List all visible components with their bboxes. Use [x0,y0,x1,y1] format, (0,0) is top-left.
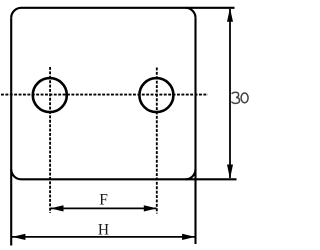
hole right [139,78,173,112]
arrowhead F right [144,205,157,211]
vertical centerline right hole [156,68,158,214]
label 30 digit 0 [241,93,248,103]
plate corner bottom-left [11,169,21,179]
plate corner top-right [186,8,196,18]
arrowhead F left [50,205,63,211]
arrowhead H left [12,234,25,240]
plate corner bottom-right [186,169,196,179]
label 30 digit 3 [232,92,240,103]
svg-text:F: F [99,192,108,209]
plate left edge with H extension line [10,18,12,246]
svg-text:H: H [98,221,109,238]
arrowhead 30 bottom [227,165,233,180]
dimension line F (between hole centers) [51,207,157,209]
hole left [33,78,67,112]
arrowhead 30 top [227,8,233,22]
arrowhead H right [182,234,195,240]
dimension line 30 (vertical, right) [229,9,231,178]
plate right edge with H extension line [194,18,196,244]
dimension line H (overall width) [12,236,195,238]
vertical centerline left hole [49,67,51,213]
plate bottom edge with dimension extension [21,178,237,180]
plate corner top-left [11,8,21,18]
horizontal centerline [1,94,208,96]
plate top edge with dimension extension [21,7,235,9]
